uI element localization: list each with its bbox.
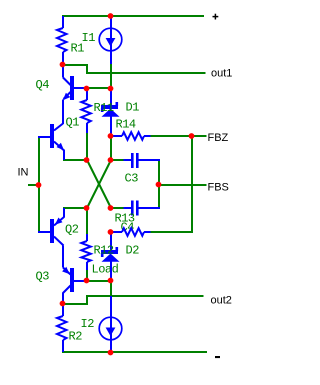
svg-text:Q2: Q2 [65,223,79,237]
svg-text:Q1: Q1 [66,116,80,130]
node: IN junction [36,182,42,188]
current source I1 [99,28,122,51]
transistor Q4 (NPN, mirrored) [63,76,74,100]
wire: R12 bottom lead [86,262,88,270]
wire: Q4 collector wire [62,64,64,78]
wire: R2 top lead [62,304,64,316]
wire: FBS net line [159,184,207,186]
wire: I2 lead through symbol [110,296,112,352]
svg-text:R14: R14 [116,118,136,132]
wire: IN stub [28,184,39,186]
node: R13/D2 top [108,229,114,235]
svg-text:R11: R11 [94,101,114,115]
resistor R1 [57,28,67,52]
wire: + power rail (top) [62,15,204,17]
svg-text:R12: R12 [94,244,114,258]
wire: Q2 emitter stub [63,208,65,218]
wire: C3 left lead [124,159,132,161]
zener diode D1 [101,102,120,117]
node: X crossing top-right [108,157,114,163]
wire: out2 net [64,296,204,304]
wire: FBZ vertical down to R13 [150,136,192,232]
node: D2 bottom [108,278,114,284]
resistor R14 (horizontal) [122,132,144,140]
wire: R14 right lead [144,135,151,137]
node: D1/R14 [108,133,114,139]
wire: R11 bottom lead [86,123,88,133]
svg-text:D1: D1 [126,101,140,115]
node: X crossing top-left [84,157,90,163]
wire: D2 bottom node down to I2 [110,281,112,297]
wire: D1 bottom to X node [110,135,112,160]
capacitor C3 [131,153,139,168]
svg-text:FBZ: FBZ [208,132,229,144]
node: D1 top/I1 [108,86,114,92]
wire: Q1 base lead [38,136,50,138]
node: rail/I1 top [108,13,114,19]
resistor R2 [57,316,67,340]
wire: X crossing diagonal 1 [87,160,111,208]
node: X crossing bottom-right [108,205,114,211]
wire: Q1 emitter to X node [63,159,87,161]
wire: D2 top lead [110,233,112,250]
svg-text:I1: I1 [82,31,96,45]
node: FBS/C3 [156,182,162,188]
net label - [215,356,220,358]
svg-text:C3: C3 [125,172,139,186]
wire: I1 bottom to bias node [110,64,112,88]
svg-text:Load: Load [92,263,119,277]
zener diode D2 [101,247,120,262]
current source I2 [99,317,122,340]
node: rail/I2 bottom [108,350,114,356]
wire: R12 top from X node [86,208,88,235]
node: Q4 base/R11 [84,86,90,92]
wire: D1 top lead [110,89,112,105]
svg-text:R2: R2 [69,330,83,344]
transistor Q3 (PNP, mirrored) [62,267,74,293]
transistor Q1 (NPN) [50,124,64,151]
wire: R11 bottom to X node [86,132,88,160]
wire: out1 net [64,65,206,73]
svg-text:Q3: Q3 [36,270,50,284]
node: X crossing bottom-left [84,205,90,211]
wire: C3 left lead stub [112,159,124,161]
wire: R13 left lead [111,231,122,233]
resistor R12 [81,241,91,262]
wire: R1 bottom lead [62,52,64,64]
wire: Q3 base node row [86,280,112,282]
wire: C3/C4 joint vertical to FBS [158,160,160,208]
wire: R13 right lead [144,231,151,233]
svg-text:FBS: FBS [208,182,229,194]
wire: Q2 collector to Q3 emitter [62,246,64,268]
wire: Q4 emitter to Q1 collector [62,100,64,125]
wire: X crossing diagonal 2 [87,160,111,208]
wire: Q4 base lead [74,87,86,89]
wire: C4 left lead [124,207,132,209]
svg-text:I2: I2 [81,317,95,331]
node: FBZ junction [189,133,195,139]
svg-text:out2: out2 [211,295,232,307]
wire: input node vertical (Q1/Q2 bases) [38,136,40,232]
wire: C3 right lead [139,159,161,161]
capacitor C4 [131,201,139,216]
resistor R13 (horizontal, drawn over C4 label) [111,228,144,281]
wire: R12 bottom to Q3 base node [86,268,88,281]
wire: - power rail (bottom) [62,351,207,353]
net label + [213,14,219,20]
transistor Q2 (PNP) [50,217,64,246]
wire: Q2 base lead [38,231,50,233]
wire: R14 left lead [111,135,122,137]
wire: C4 right lead [139,207,161,209]
resistor R11 [81,100,91,123]
wire: Q4 base node (R11/D1 top) [86,87,112,89]
wire: Q3 base lead [74,280,86,282]
wire: D2 bottom lead (over Load label) [110,262,112,282]
wire: Q1 emitter stub [63,150,65,161]
blue wires / component leads [38,16,160,352]
node: Q3 base/R12 [84,278,90,284]
svg-text:D2: D2 [126,244,140,258]
wire: R11 top lead [86,89,88,100]
svg-text:out1: out1 [211,68,232,80]
wire: R14 right to FBZ [150,135,207,137]
svg-text:IN: IN [18,167,29,179]
wire: R2 bottom lead [62,340,64,352]
node: R1/Q4 collector/out1 [60,62,66,68]
svg-text:Q4: Q4 [36,78,50,92]
wire: C4 left lead stub [112,207,124,209]
wire: Q2 emitter to X node [63,207,87,209]
wire: R12 top lead [86,234,88,241]
wire: D1 bottom lead [110,116,112,136]
wire: Q3 collector wire [62,293,64,305]
node: out2/Q3 collector/R2 [60,301,66,307]
wire: R1 top lead [62,16,64,28]
wire: I1 lead through symbol [110,16,112,64]
